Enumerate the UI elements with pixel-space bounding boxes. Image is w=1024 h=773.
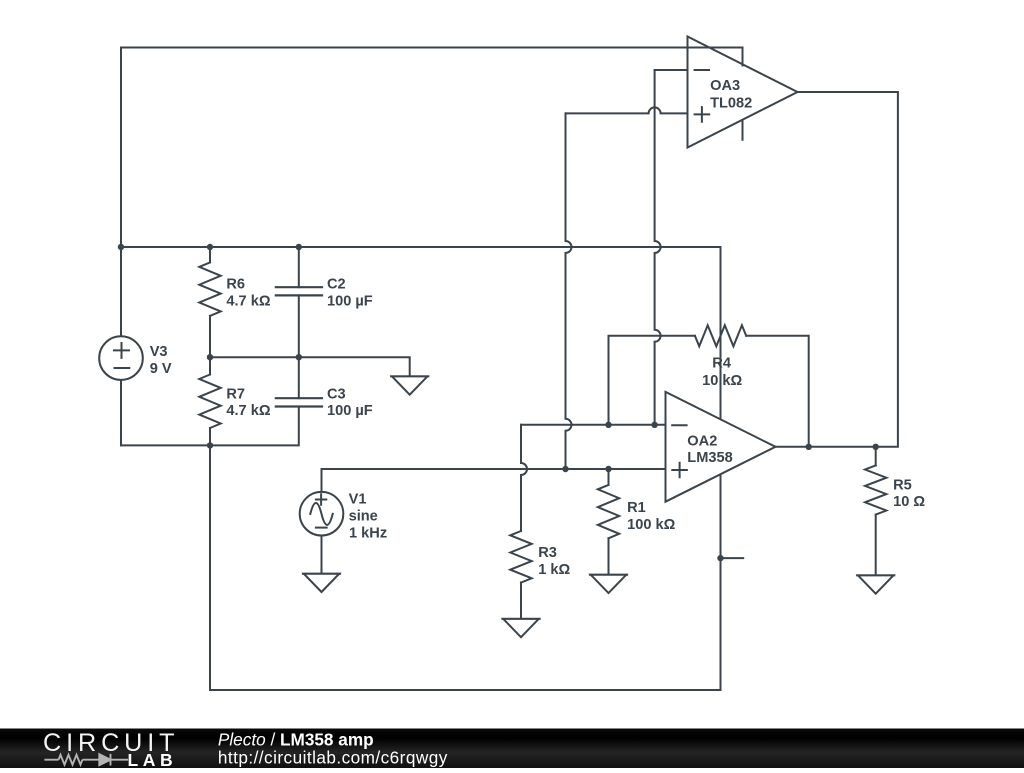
- svg-text:1 kHz: 1 kHz: [349, 525, 387, 541]
- footer bar: [0, 729, 1024, 769]
- svg-text:TL082: TL082: [710, 96, 752, 112]
- wire OA3 plus vertical with hops: [566, 113, 572, 469]
- svg-text:R5: R5: [893, 477, 912, 493]
- resistor R4: [695, 325, 746, 346]
- svg-text:10 kΩ: 10 kΩ: [702, 373, 742, 389]
- wire output line / right rail / OA3 output: [776, 92, 898, 447]
- svg-text:4.7 kΩ: 4.7 kΩ: [226, 293, 270, 309]
- node bottomleft-R7: [207, 442, 213, 448]
- svg-text:LM358: LM358: [687, 450, 732, 466]
- svg-text:V3: V3: [150, 344, 168, 360]
- capacitor C2: [298, 247, 300, 287]
- svg-text:R6: R6: [226, 277, 245, 293]
- ground R1: [590, 574, 627, 576]
- node Vminus: [717, 555, 723, 561]
- svg-text:1 kΩ: 1 kΩ: [538, 562, 570, 578]
- svg-text:R4: R4: [712, 355, 732, 371]
- resistor R3: [510, 531, 531, 583]
- node plus-OA3: [562, 466, 568, 472]
- node plus-R1: [605, 466, 611, 472]
- svg-text:100 kΩ: 100 kΩ: [627, 517, 676, 533]
- node out-R5: [873, 444, 879, 450]
- wire R4 right leg down to output: [746, 336, 809, 447]
- op-amp OA3 plus glyph: [695, 107, 710, 122]
- resistor R5: [875, 447, 877, 466]
- wire bottom rail / OA2 V- supply: [210, 445, 721, 690]
- resistor R6: [209, 247, 211, 262]
- svg-text:http://circuitlab.com/c6rqwgy: http://circuitlab.com/c6rqwgy: [218, 748, 448, 768]
- wire V1 top lead: [321, 469, 323, 492]
- wire OA3 plus pin lead with hop: [566, 107, 688, 113]
- wire OA3 minus pin lead: [655, 69, 688, 71]
- svg-text:LAB: LAB: [128, 750, 178, 768]
- svg-text:OA3: OA3: [710, 78, 740, 94]
- logo schematic squiggle: [44, 754, 128, 766]
- wire OA3 minus vertical with hops: [655, 70, 661, 425]
- node mid-R6: [207, 354, 213, 360]
- wire R3 top lead with hop: [521, 425, 527, 531]
- ground R3: [502, 618, 539, 620]
- ground V1: [303, 573, 340, 575]
- voltage source V3: [99, 336, 143, 380]
- wire V- stub: [721, 557, 744, 559]
- wire mid rail to ground: [210, 357, 410, 376]
- wire V1 bottom lead: [321, 536, 323, 574]
- op-amp U2 OA2 triangle: [666, 392, 776, 502]
- node bus-C2: [296, 244, 302, 250]
- svg-text:C2: C2: [327, 277, 346, 293]
- wire top rail / left rail / OA3 V+ supply: [121, 48, 743, 248]
- svg-text:R7: R7: [226, 386, 245, 402]
- wire OA2 minus input line: [521, 424, 670, 426]
- node minus-OA3: [651, 422, 657, 428]
- wire V3 bottom lead: [120, 380, 122, 446]
- svg-text:4.7 kΩ: 4.7 kΩ: [226, 403, 270, 419]
- node bus-left: [118, 244, 124, 250]
- ground mid rail: [391, 375, 428, 377]
- op-amp U1 OA3 triangle: [688, 37, 798, 148]
- svg-text:V1: V1: [349, 491, 367, 507]
- wire OA3 V- stub: [742, 122, 744, 140]
- svg-text:R1: R1: [627, 500, 646, 516]
- svg-text:C3: C3: [327, 386, 346, 402]
- node mid-C2: [296, 354, 302, 360]
- capacitor C3: [298, 357, 300, 398]
- svg-text:sine: sine: [349, 508, 378, 524]
- op-amp OA2 plus glyph: [672, 463, 687, 478]
- svg-text:100 µF: 100 µF: [327, 403, 373, 419]
- op-amp OA2 minus glyph: [672, 424, 686, 426]
- wire V3 top lead: [120, 247, 122, 337]
- resistor R7: [209, 357, 211, 374]
- ground R5: [857, 574, 894, 576]
- op-amp OA3 minus glyph: [695, 69, 709, 71]
- svg-text:OA2: OA2: [687, 434, 717, 450]
- node out-R4: [806, 444, 812, 450]
- svg-text:Plecto / LM358 amp: Plecto / LM358 amp: [218, 730, 374, 750]
- wire positive bus to OA2 V+ supply: [121, 247, 721, 430]
- svg-text:R3: R3: [538, 545, 557, 561]
- svg-text:100 µF: 100 µF: [327, 293, 373, 309]
- svg-text:9 V: 9 V: [150, 361, 172, 377]
- voltage source V1 (sine): [300, 492, 344, 536]
- resistor R1: [608, 469, 610, 485]
- wire V1 to OA2 plus input: [322, 468, 671, 470]
- node minus-R4: [605, 422, 611, 428]
- wire bottom-left rail to C3 bottom: [121, 407, 299, 446]
- svg-text:10 Ω: 10 Ω: [893, 494, 925, 510]
- node bus-R6: [207, 244, 213, 250]
- wire R4 left leg: [609, 336, 695, 425]
